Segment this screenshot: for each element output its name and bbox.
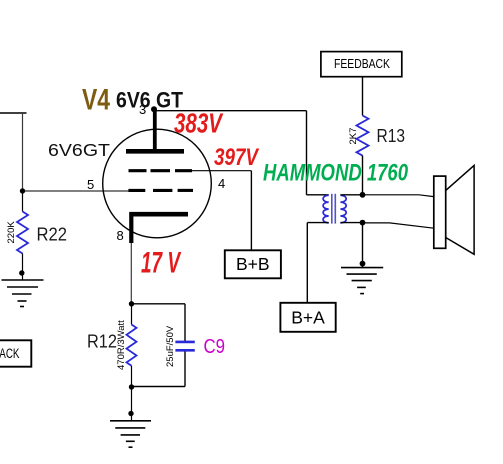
svg-text:5: 5 [87,177,94,192]
wire plate to transformer horizontal [154,110,307,112]
svg-text:25uF/50V: 25uF/50V [165,325,176,367]
wire to cathode ground [131,387,133,421]
node cathode junction [129,301,134,306]
tube control grid [128,189,193,192]
node R22 ground [19,270,24,275]
svg-text:V4: V4 [82,84,110,117]
transformer primary winding [323,195,329,223]
box FEEDBACK [321,52,402,77]
wire transformer primary drop [306,111,308,195]
speaker frame [434,176,446,248]
svg-text:FEEDBACK: FEEDBACK [334,57,391,71]
resistor R22 [17,212,28,254]
wire secondary bottom to speaker [363,223,434,228]
svg-text:220K: 220K [6,221,17,244]
wire screen to B+B vertical [250,171,252,251]
svg-text:FEEDBACK: FEEDBACK [0,346,20,361]
svg-text:2K7: 2K7 [348,128,359,145]
box FEEDBACK cut at left edge [0,340,31,366]
node secondary ground [360,261,366,267]
svg-text:8: 8 [117,228,124,243]
wire R22 top lead [22,191,24,212]
svg-text:C9: C9 [204,336,226,358]
node pin 3 [151,106,157,112]
wire secondary top to speaker [363,195,434,197]
capacitor C9 [175,342,194,350]
wire capacitor top lead [184,304,186,341]
wire primary top connect [307,194,329,196]
wire capacitor bottom connect [132,386,186,388]
svg-text:HAMMOND 1760: HAMMOND 1760 [263,160,408,187]
svg-text:383V: 383V [174,108,224,139]
wire capacitor bottom lead [184,352,186,387]
wire R13 to transformer [362,156,364,195]
transformer core [332,194,336,224]
node cathode ground [128,411,133,416]
wire R12 top lead [131,304,133,325]
tube plate [126,109,184,151]
resistor R12 [127,325,137,366]
wire cathode down [130,243,132,304]
wire junction to capacitor branch [132,303,186,305]
node secondary bottom [360,220,366,226]
resistor R13 [357,116,369,156]
svg-text:470R/3Watt: 470R/3Watt [116,320,127,370]
tube screen grid [129,169,193,172]
svg-text:B+B: B+B [236,254,270,274]
node secondary top [360,192,366,198]
svg-text:R13: R13 [377,125,406,146]
svg-text:6V6GT: 6V6GT [48,140,110,160]
tube V4 envelope [103,129,212,238]
wire R22 bottom lead [22,254,24,281]
speaker cone [446,165,474,254]
ground secondary [341,268,383,294]
wire screen to B+B horizontal [190,170,251,172]
svg-text:B+A: B+A [291,308,325,328]
wire R12 bottom lead [131,366,133,387]
svg-text:R22: R22 [37,224,68,245]
wire junction to pin 5 [23,190,135,192]
wire secondary bottom connect [340,222,362,224]
box B+B [225,250,281,278]
wire secondary to ground [362,223,364,268]
wire primary bottom connect [307,222,328,224]
tube cathode [130,212,189,243]
wire feedback to R13 [362,77,364,116]
wire input vertical drop [22,113,24,191]
node grid junction [20,188,25,193]
svg-text:4: 4 [218,176,225,191]
transformer secondary winding [340,195,346,223]
svg-text:397V: 397V [214,144,260,171]
ground R22 [2,280,44,307]
wire primary to B+A [306,223,308,303]
ground cathode [110,421,151,447]
wire secondary top connect [340,194,362,196]
svg-text:17 V: 17 V [141,247,182,280]
node R12 bottom junction [129,384,134,389]
box B+A [280,303,335,332]
svg-text:R12: R12 [87,331,117,352]
wire input top-left horizontal [0,112,27,114]
